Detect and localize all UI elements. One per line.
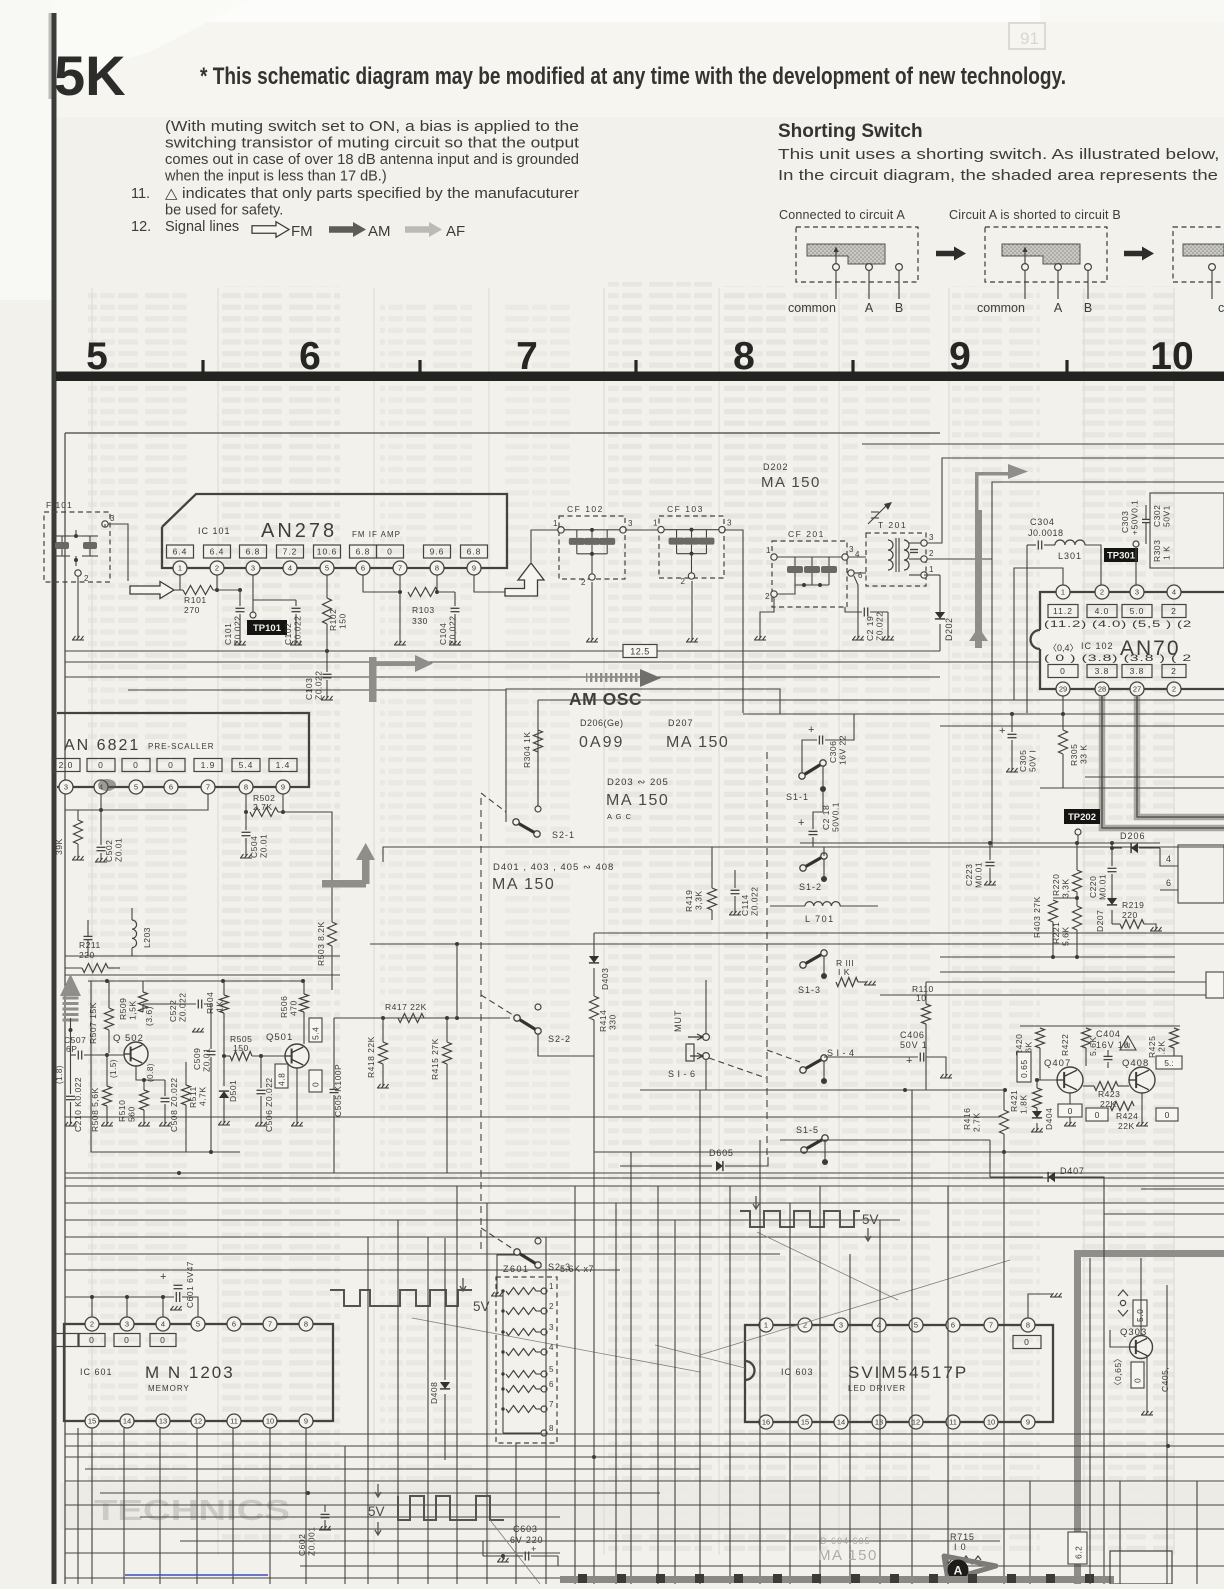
SVIM voltage box 0 [1013,1336,1041,1349]
IC101 pin 1 [173,561,187,575]
svg-text:91: 91 [1020,29,1039,48]
svg-text:9.6: 9.6 [430,547,445,557]
wire into CF102 [531,530,558,562]
bus wire y651 [65,650,940,652]
MN1203 top pin 2 [85,1317,99,1331]
switch S2-2 [517,1018,538,1031]
FM outline corner arrow up [505,563,544,596]
svg-text:13: 13 [159,1417,167,1426]
svg-text:R417 22K: R417 22K [385,1002,427,1012]
MN1203 top pin 8 [299,1317,313,1331]
FM outline arrow into pin1 [130,582,174,599]
bus wire y1254 [65,1253,780,1255]
Q501 emitter ground [304,1064,306,1124]
svg-text:5.6K x7: 5.6K x7 [560,1264,594,1274]
resistor R415 [443,1042,452,1064]
bottom right component box [1110,1551,1172,1584]
svg-text:3: 3 [628,519,633,528]
square wave 5V top [330,1290,472,1306]
svg-text:6.4: 6.4 [210,547,225,557]
svg-text:C306: C306 [828,741,838,763]
AN6821 pin 6 [164,780,178,794]
ghost table column rules [91,288,93,1555]
SVIM bottom pin 11 [946,1415,960,1429]
svg-text:C603: C603 [513,1524,538,1534]
Z601 resistor 3 [506,1329,536,1336]
svg-text:Z0.022: Z0.022 [314,671,324,700]
IC102 pin 1 [1056,585,1070,599]
capacitor C305 [1010,712,1014,716]
svg-text:C404: C404 [1096,1029,1121,1039]
svg-text:MA 150: MA 150 [492,876,555,893]
svg-text:IC 101: IC 101 [198,526,231,536]
S2-3 ground [497,1255,517,1294]
svg-text:6V 220: 6V 220 [510,1535,543,1545]
AN6821 voltage box 0 [157,759,185,772]
svg-text:D403: D403 [600,968,610,990]
MN1203 bottom pin 12 [191,1414,205,1428]
bus wire y726 [940,725,1224,727]
Z601 resistor network [496,1277,557,1443]
bus wire y847 [383,847,1224,862]
voltage tag 5.0 rotated [1133,1300,1147,1326]
wire CF101 pin3 to FM arrow [104,524,106,527]
IC501 AN6821 outline [57,713,309,787]
bus wire y1237 [65,1236,1224,1238]
svg-text:MEMORY: MEMORY [148,1384,190,1393]
IC101 voltage box pin8 [424,545,451,558]
svg-text:I 0: I 0 [954,1542,966,1552]
svg-text:5: 5 [549,1365,554,1374]
svg-text:SVIM54517P: SVIM54517P [848,1363,968,1382]
IC102 bottom voltage box 0 [1048,665,1078,678]
MN1203 top pin 6 [227,1317,241,1331]
bottom bus y1529 [65,1528,1224,1530]
resistor R503 [328,922,337,946]
svg-text:C304: C304 [1030,517,1055,527]
svg-text:be used for safety.: be used for safety. [165,203,283,219]
Z601 resistor 4 [506,1349,536,1356]
svg-text:8: 8 [549,1424,554,1433]
svg-text:0: 0 [1133,1378,1143,1383]
wire CF201 to T201 [848,556,866,558]
wire R417 row [334,1017,510,1019]
arrow between switch diagrams [936,247,966,261]
SVIM top pin 1 [759,1318,773,1332]
IC102 bottom voltage box 2 [1122,665,1152,678]
switch S2-1 [516,822,537,834]
svg-text:6: 6 [549,1380,554,1389]
svg-text:R510: R510 [117,1100,127,1122]
svg-text:220: 220 [79,950,95,960]
svg-text:M0.01: M0.01 [1098,874,1108,900]
voltage tag 12.5 [623,645,657,658]
svg-text:2.0: 2.0 [59,760,74,770]
schematic left border [64,433,66,1584]
SVIM bottom pin 15 [798,1415,812,1429]
IC101 pin 8 [430,561,444,575]
svg-text:1: 1 [1061,588,1065,597]
svg-text:2: 2 [765,592,770,601]
svg-text:D 604,605: D 604,605 [820,1536,871,1546]
wire pin7 ground [399,575,401,643]
svg-text:3: 3 [125,1320,129,1329]
zener D501 [219,1091,229,1098]
bus wire y843 [800,842,1160,844]
MN1203 bottom pin 14 [120,1414,134,1428]
svg-text:* This schematic diagram may b: * This schematic diagram may be modified… [200,63,1066,90]
svg-text:comes out in case of over 18 d: comes out in case of over 18 dB antenna … [165,152,579,168]
CF201 pin6 ground wire [854,576,858,638]
svg-text:6: 6 [858,571,863,580]
svg-text:8: 8 [244,783,248,792]
svg-text:4.8: 4.8 [277,1073,287,1086]
switch S1-3 [803,953,824,965]
resistor R103 [408,588,438,597]
IC102 pin 2 [1167,682,1181,696]
svg-text:7: 7 [206,783,210,792]
svg-text:R414: R414 [598,1010,608,1032]
Z601 resistor 2 [506,1308,536,1315]
diode D207 [1107,898,1117,905]
bus wire y714 [743,713,1224,715]
svg-text:D605: D605 [709,1148,734,1158]
svg-text:J0.0018: J0.0018 [1028,528,1064,538]
switch S1-4 [803,1058,824,1070]
AN6821 pin 8 [239,780,253,794]
IC603 SVIM54517P outline [745,1325,1053,1422]
shorting switch diagram 1 [796,227,918,282]
svg-text:B: B [895,301,903,315]
wire S1-2 common to L701 [790,868,803,906]
svg-text:TP202: TP202 [1068,812,1096,823]
resistor R424 [1110,1102,1134,1111]
IC101 pin 6 [356,561,370,575]
svg-text:3: 3 [1135,588,1139,597]
voltage tag 0 rotated Q303 [1131,1362,1144,1388]
svg-text:( 0 ) (3.8) (3.8 ) ( 2: ( 0 ) (3.8) (3.8 ) ( 2 [1044,653,1192,663]
svg-text:D404: D404 [1044,1108,1054,1130]
svg-text:IC 601: IC 601 [80,1367,113,1377]
svg-text:0: 0 [160,1335,166,1345]
svg-text:470: 470 [289,1000,299,1016]
bus wire y1152 [91,1151,240,1153]
right edge verticals [1089,1258,1091,1584]
bottom edge wire [65,1577,560,1579]
svg-text:AN 6821: AN 6821 [64,737,140,754]
svg-text:C103: C103 [304,678,314,700]
svg-text:11.: 11. [131,186,150,202]
svg-text:5,6K: 5,6K [1061,927,1071,947]
svg-text:6: 6 [1166,878,1171,888]
svg-text:2: 2 [581,578,586,587]
ghost logo band [60,1483,1224,1529]
svg-text:D206: D206 [1120,831,1146,841]
AF gray up arrow left edge [60,974,81,996]
svg-text:13: 13 [875,1418,883,1427]
svg-text:1.4: 1.4 [276,760,291,770]
box wire left [91,981,240,1152]
svg-text:Z0,022: Z0,022 [448,616,458,645]
IC102 top voltage box 1 [1087,605,1117,618]
svg-text:C302: C302 [1152,505,1162,527]
bus wire y944 [370,943,1224,945]
svg-text:This unit uses a shorting swit: This unit uses a shorting switch. As ill… [778,146,1224,163]
SVIM top pin 4 [872,1318,886,1332]
switch linkage dashed S1 [766,752,768,1160]
voltage tag 0.65 rotated [1017,1052,1031,1082]
svg-text:7: 7 [989,1321,993,1330]
svg-text:S2-1: S2-1 [552,830,575,840]
svg-text:1: 1 [764,1321,768,1330]
IC102 bottom voltage box 1 [1087,665,1117,678]
svg-text:10: 10 [266,1417,274,1426]
gray shaded wire from pin28 [1102,696,1224,828]
svg-text:1: 1 [178,564,182,573]
wire pin1 left down [1014,568,1063,700]
svg-text:Z0.022: Z0.022 [178,993,188,1022]
svg-text:common: common [788,301,836,315]
Q303 wires [1140,1258,1142,1336]
svg-text:330: 330 [412,616,428,626]
gray shaded wire from pin27 [1137,696,1224,817]
svg-text:C522: C522 [168,1000,178,1022]
IC101 AN278 outline [162,494,507,568]
svg-text:C502: C502 [104,840,114,862]
bus wire y1117 [65,1116,1000,1118]
bus wires right edge y777 y788 [1085,776,1224,778]
Q408 emitter ground [1141,1093,1143,1124]
scratch diagonal bottom [490,1520,540,1584]
svg-text:0: 0 [89,1335,95,1345]
svg-text:R424: R424 [1116,1111,1138,1121]
switch S1-2 [803,856,824,868]
svg-text:5.0: 5.0 [1135,1309,1145,1322]
bus wire y1173 [65,1172,1224,1174]
svg-text:D203 ∾ 205: D203 ∾ 205 [607,777,669,788]
svg-text:M0.01: M0.01 [974,862,984,888]
svg-text:0: 0 [1068,1106,1073,1116]
svg-text:6.2: 6.2 [1074,1546,1084,1559]
svg-text:50V 1: 50V 1 [900,1040,928,1050]
svg-text:AN278: AN278 [261,520,337,542]
wire pin6 to pin9 row [363,575,400,592]
bottom bus y1505 [65,1504,1224,1506]
svg-text:10: 10 [987,1418,995,1427]
svg-text:1,5K: 1,5K [128,1001,138,1021]
svg-text:5: 5 [914,1321,918,1330]
svg-text:L 701: L 701 [805,914,835,924]
IC101 voltage box pin2 [204,545,231,558]
capacitor C502 [97,846,106,848]
voltage tag 5.5 rotated [1156,1056,1182,1069]
bus wire y1152 right [594,1151,1224,1153]
svg-text:6.8: 6.8 [356,547,371,557]
bus wires left y956 y975 [65,955,340,957]
svg-text:6.8: 6.8 [246,547,261,557]
CF101 ground [77,576,79,638]
svg-text:LED DRIVER: LED DRIVER [848,1384,906,1393]
svg-text:2: 2 [803,1321,807,1330]
svg-text:(1.8): (1.8) [55,1065,64,1084]
svg-text:15: 15 [801,1418,809,1427]
AM OSC inner corner wire [537,700,539,810]
svg-text:7.2: 7.2 [283,547,298,557]
svg-text:R403 27K: R403 27K [1032,896,1042,938]
svg-text:S1-1: S1-1 [786,792,809,802]
wire CF102-CF103 [625,529,659,531]
svg-text:R101: R101 [184,595,207,605]
svg-text:+50V0.1: +50V0.1 [1130,500,1140,535]
svg-text:S I - 6: S I - 6 [668,1069,696,1079]
IC101 voltage box pin6 [350,545,377,558]
svg-text:270: 270 [184,605,200,615]
wire pin9 to R503 column [283,812,332,922]
CF102 ceramic filter [559,516,625,579]
IC102 pin 2 [1095,585,1109,599]
bus wire y1203 [65,1202,1224,1204]
svg-text:0: 0 [1060,666,1066,676]
svg-text:2: 2 [84,574,89,583]
svg-text:3,3K: 3,3K [1061,879,1071,899]
svg-text:5K: 5K [54,44,126,107]
svg-text:R509: R509 [118,998,128,1020]
right edge tag box [1206,972,1224,998]
svg-text:0A99: 0A99 [579,734,624,751]
wire Q502 emitter [136,1066,165,1080]
svg-text:14: 14 [837,1418,845,1427]
svg-text:330: 330 [608,1014,618,1030]
CF201 ceramic filter [772,541,847,607]
svg-text:3,3K: 3,3K [694,891,704,911]
svg-text:D202: D202 [944,617,954,641]
wire pin9 drop [282,794,284,812]
svg-text:5: 5 [134,783,138,792]
resistor R304 [534,730,543,752]
svg-text:R425: R425 [1147,1036,1157,1058]
svg-text:16: 16 [762,1418,770,1427]
SVIM top pin 6 [946,1318,960,1332]
test point TP202 [1064,809,1100,824]
Q407 emitter ground [1069,1093,1071,1124]
IC101 pin 7 [393,561,407,575]
voltage tag 5.4 rotated [309,1018,322,1042]
SVIM bottom pin 9 [1021,1415,1035,1429]
svg-text:2: 2 [1100,588,1104,597]
SVIM bottom pin 16 [759,1415,773,1429]
IC102 AN70 outline [1040,592,1224,630]
svg-text:5: 5 [196,1320,200,1329]
svg-text:2: 2 [681,577,686,586]
svg-text:4: 4 [288,564,292,573]
svg-text:8: 8 [435,564,439,573]
svg-text:6P: 6P [66,1044,77,1054]
svg-text:8: 8 [304,1320,308,1329]
svg-text:6.4: 6.4 [173,547,188,557]
svg-text:(0.8): (0.8) [146,1063,155,1082]
SVIM top pin 5 [909,1318,923,1332]
resistor R414 [590,996,599,1020]
wire CF103 pin3 down [724,530,743,713]
bus wire y933 [594,932,1224,934]
svg-text:9: 9 [1026,1418,1030,1427]
svg-text:S2-2: S2-2 [548,1034,571,1044]
svg-text:common: common [977,301,1025,315]
svg-text:4: 4 [1172,588,1176,597]
diode D202 [939,575,941,612]
svg-text:MA 150: MA 150 [761,474,821,491]
svg-text:A: A [865,301,874,315]
Z601 pin 8 wire [503,1432,541,1434]
svg-text:A G C: A G C [607,812,632,821]
svg-text:5.:: 5.: [1164,1058,1173,1068]
svg-text:R211: R211 [79,940,101,950]
svg-text:CF 103: CF 103 [667,504,704,514]
resistor R510 [140,1090,149,1110]
svg-text:0: 0 [98,760,104,770]
svg-text:R303: R303 [1152,540,1162,562]
svg-text:TP301: TP301 [1107,551,1136,562]
inductor L701 [805,902,840,906]
svg-text:△ indicates that only parts sp: △ indicates that only parts specified by… [165,186,579,202]
svg-text:R421: R421 [1009,1090,1019,1112]
SVIM bottom pin 13 [872,1415,886,1429]
svg-text:R219: R219 [1122,900,1144,910]
IC102 pin 4 [1167,585,1181,599]
svg-text:0: 0 [387,547,393,557]
MN1203 top pin 5 [191,1317,205,1331]
resistor R511 [182,1085,191,1105]
switch linkage dashed S2 [480,798,482,1250]
MN1203 bottom pin 13 [156,1414,170,1428]
svg-text:C508 Z0.022: C508 Z0.022 [169,1077,179,1132]
wire FM row y590 [174,589,183,591]
svg-text:R511: R511 [188,1086,198,1108]
svg-text:C102: C102 [283,623,293,645]
resistor R102 [326,575,328,598]
svg-text:when the input is less than 17: when the input is less than 17 dB.) [164,169,387,185]
wire pin9 to corner arrow [474,575,505,592]
svg-text:PRE-SCALLER: PRE-SCALLER [148,742,215,751]
square wave 5V mid [740,1211,860,1227]
svg-text:5.0: 5.0 [1130,606,1145,616]
bus wire y972 [940,971,1175,973]
resistor R508 [103,1086,112,1106]
svg-text:C101: C101 [223,623,233,645]
supply rail y981 [88,980,304,982]
svg-text:50V I: 50V I [1028,750,1038,772]
svg-text:5: 5 [325,564,329,573]
svg-text:C305: C305 [1018,750,1028,772]
svg-text:R221: R221 [1051,922,1061,944]
diode D403 column [593,933,595,956]
svg-text:Signal lines: Signal lines [165,219,239,235]
AN6821 voltage box 0 [87,759,115,772]
svg-text:〈0,65〉: 〈0,65〉 [1113,1353,1123,1390]
svg-text:2: 2 [549,1302,554,1311]
grid ruler ticks [201,360,204,372]
MN1203 top pin 4 [156,1317,170,1331]
CF103 ceramic filter [659,516,724,578]
svg-text:4: 4 [1166,854,1171,864]
wire y444 to right edge [862,443,1224,445]
svg-text:D407: D407 [1060,1166,1085,1176]
bottom bus y1566 [300,1565,1224,1567]
bottom bus y1434 [65,1433,1224,1435]
svg-text:6: 6 [951,1321,955,1330]
dashed diagonal S1-6 linkage [709,1058,766,1078]
svg-text:Z0.022: Z0.022 [233,616,243,645]
